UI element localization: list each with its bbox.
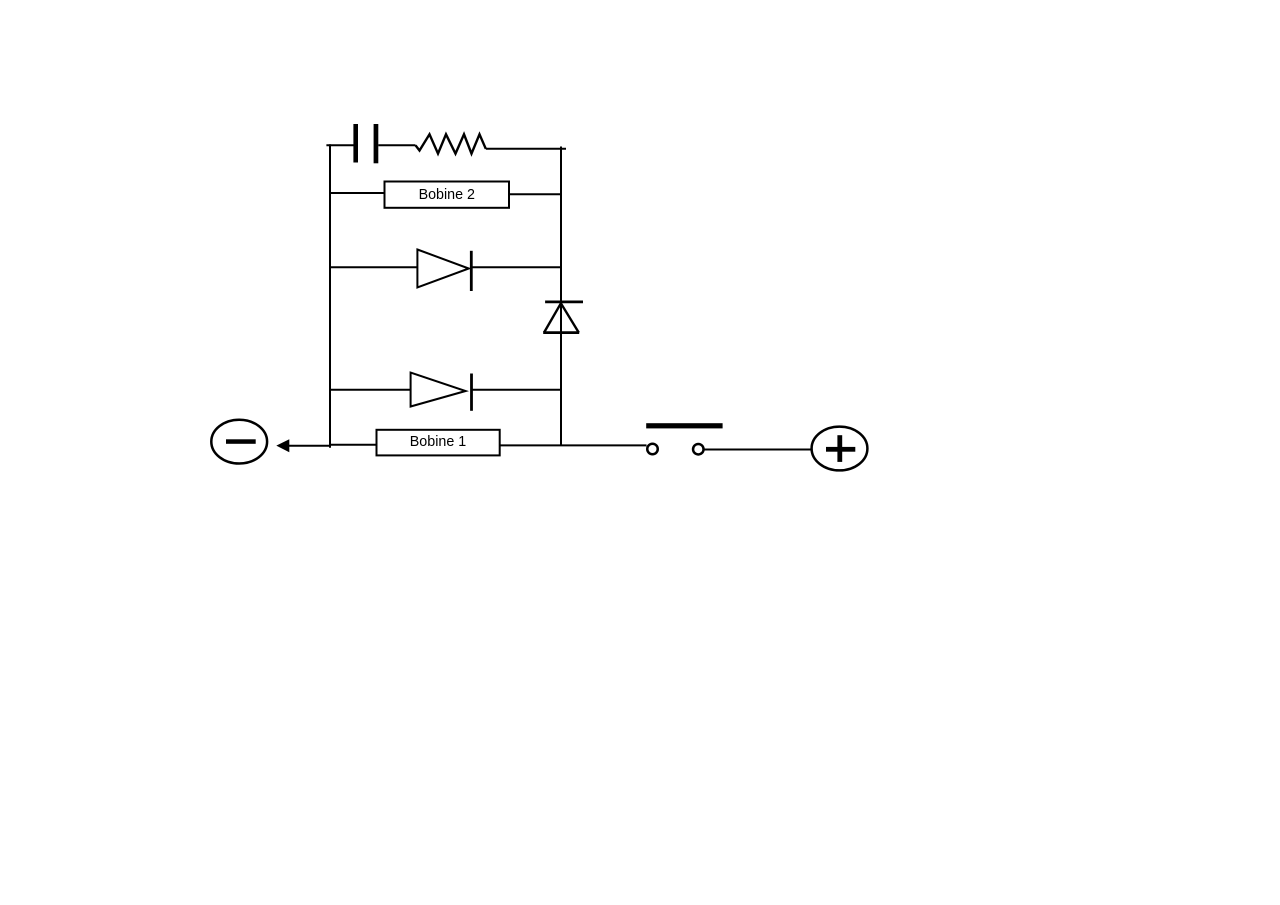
wire left bus to Bobine 1 — [331, 444, 377, 446]
minus sign bar — [226, 439, 256, 444]
svg-text:Bobine 2: Bobine 2 — [419, 187, 475, 203]
wire left vertical bus — [329, 144, 331, 448]
wire capacitor to resistor — [378, 144, 415, 146]
plus sign horizontal bar — [826, 447, 855, 452]
switch contact circle right — [693, 444, 704, 455]
arrow head pointing left — [276, 439, 289, 452]
capacitor C1 right plate — [374, 124, 379, 163]
wire diode D2 to right — [472, 389, 562, 391]
terminal minus ellipse — [211, 420, 267, 464]
diode D3 base line — [543, 331, 579, 334]
terminal plus ellipse — [812, 427, 868, 471]
diode D2 triangle — [411, 373, 466, 407]
wire right vertical bus — [560, 147, 562, 446]
wire left to diode D2 — [330, 389, 411, 391]
wire diode D1 to right — [471, 266, 561, 268]
wire Bobine 2 to right — [509, 193, 561, 195]
wire left to Bobine 2 — [330, 192, 385, 194]
wire Bobine 1 to switch — [500, 444, 647, 446]
diode D3 cathode bar (vertical diode on right bus) — [545, 300, 583, 303]
switch contact circle left — [647, 444, 658, 455]
wire top-left stub — [326, 144, 353, 146]
diode D1 cathode bar — [470, 251, 473, 291]
diode D1 triangle — [417, 250, 468, 288]
switch actuator bar — [646, 423, 722, 428]
wire resistor to top-right corner — [486, 148, 566, 150]
wire switch to plus terminal — [705, 449, 812, 451]
svg-text:Bobine 1: Bobine 1 — [410, 434, 466, 450]
diode D2 cathode bar — [470, 374, 473, 411]
wire arrow to left bus — [288, 445, 330, 447]
capacitor C1 left plate — [353, 124, 358, 163]
resistor R1 zigzag — [416, 134, 486, 153]
coil Bobine 1 box — [377, 430, 500, 456]
plus sign vertical bar — [837, 435, 842, 462]
diode D3 triangle pointing up — [544, 303, 579, 332]
coil Bobine 2 box — [385, 182, 510, 208]
wire left to diode D1 — [330, 266, 417, 268]
